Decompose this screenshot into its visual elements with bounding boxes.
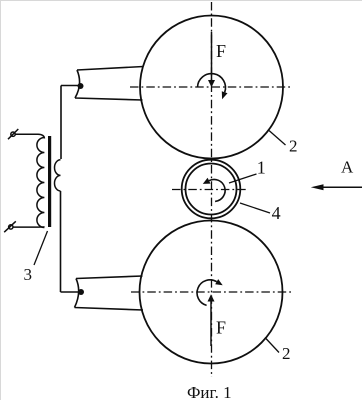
- svg-text:2: 2: [282, 344, 291, 363]
- svg-text:2: 2: [289, 137, 298, 156]
- svg-text:F: F: [216, 318, 226, 338]
- svg-text:F: F: [216, 41, 226, 61]
- svg-text:A: A: [341, 158, 354, 177]
- svg-text:4: 4: [272, 203, 281, 223]
- svg-text:3: 3: [24, 265, 33, 284]
- svg-text:1: 1: [257, 158, 266, 178]
- svg-text:Фиг. 1: Фиг. 1: [187, 383, 232, 400]
